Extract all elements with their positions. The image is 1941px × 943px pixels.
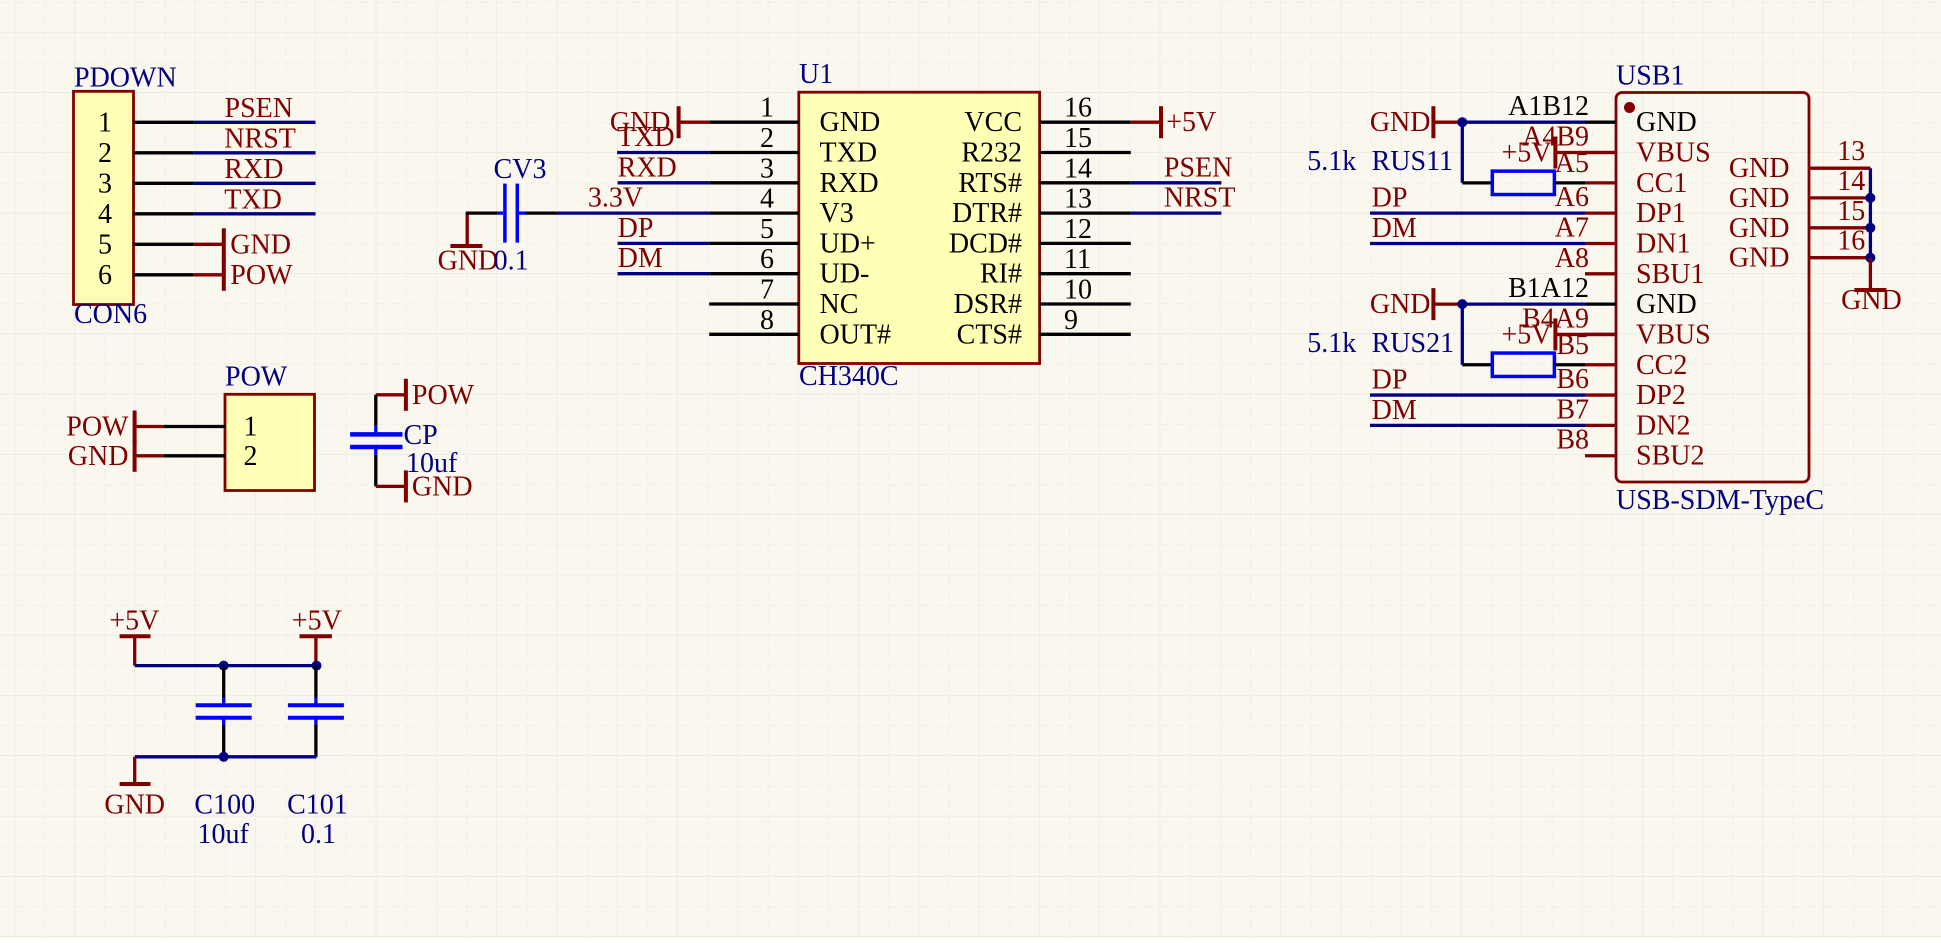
svg-text:GND: GND: [1729, 153, 1790, 184]
USB1 pin B1A12 (GND): [1508, 273, 1697, 320]
svg-text:CC1: CC1: [1636, 168, 1687, 199]
wire RXD stub at U1 pin 3: [618, 181, 710, 184]
svg-text:15: 15: [1837, 196, 1865, 227]
wire NRST net at U1 pin 13: [1131, 211, 1222, 214]
svg-text:4: 4: [760, 184, 774, 215]
USB1 pin A4B9 (VBUS): [1522, 122, 1711, 169]
power port GND below rail: [104, 757, 165, 821]
svg-text:B1A12: B1A12: [1508, 273, 1589, 304]
U1 pin 10 (DSR#): [954, 275, 1131, 321]
U1 pin 3 (RXD): [709, 153, 878, 199]
wire down to RUS11: [1461, 122, 1464, 183]
power port +5V above C100: [109, 605, 159, 665]
connector USB1 (USB-SDM-TypeC body): [1616, 61, 1824, 516]
svg-text:GND: GND: [68, 441, 129, 472]
wire RXD net: [194, 182, 316, 185]
svg-text:GND: GND: [1729, 183, 1790, 214]
svg-text:POW: POW: [225, 362, 288, 393]
U1 pin 1 (GND): [709, 93, 880, 139]
svg-text:B8: B8: [1556, 425, 1589, 456]
wire C100 bottom: [222, 725, 225, 757]
USB1 pin B8 (SBU2): [1556, 425, 1704, 472]
svg-text:NRST: NRST: [224, 123, 296, 154]
svg-text:USB-SDM-TypeC: USB-SDM-TypeC: [1616, 485, 1824, 516]
junction dot: [219, 752, 229, 762]
capacitor C101: [287, 698, 348, 850]
svg-text:CP: CP: [404, 420, 438, 451]
wire PSEN net at U1 pin 14: [1131, 181, 1222, 184]
svg-text:VCC: VCC: [964, 107, 1022, 138]
svg-text:2: 2: [244, 441, 258, 472]
wire CV3 right: [525, 211, 557, 214]
svg-text:11: 11: [1064, 244, 1091, 275]
svg-text:RXD: RXD: [820, 168, 879, 199]
svg-text:10: 10: [1064, 275, 1092, 306]
power port +5V at A4B9: [1501, 137, 1616, 169]
U1 pin 14 (RTS#): [958, 153, 1130, 199]
svg-text:GND: GND: [230, 229, 291, 260]
svg-text:DM: DM: [618, 243, 663, 274]
power port GND at U1 pin 1: [610, 106, 709, 138]
svg-text:GND: GND: [1636, 107, 1697, 138]
junction dot: [1457, 299, 1467, 309]
svg-text:GND: GND: [104, 789, 165, 820]
USB1 pin A8 (SBU1): [1555, 243, 1705, 290]
svg-text:UD-: UD-: [820, 259, 870, 290]
U1 pin 8 (OUT#): [709, 305, 891, 351]
wire RUS11 left: [1462, 181, 1492, 184]
U1 pin 12 (DCD#): [949, 214, 1131, 260]
USB1 pin 15 (GND shell): [1729, 196, 1871, 244]
U1 pin 7 (NC): [709, 275, 858, 321]
svg-text:GND: GND: [820, 107, 881, 138]
svg-text:14: 14: [1064, 153, 1092, 184]
capacitor C100: [194, 698, 255, 850]
power port GND at CON6 pin 5: [194, 228, 291, 260]
wire C101 bottom: [314, 725, 317, 757]
svg-text:NC: NC: [820, 289, 859, 320]
svg-text:14: 14: [1837, 166, 1865, 197]
capacitor CV3: [494, 154, 547, 277]
svg-text:TXD: TXD: [617, 122, 675, 153]
svg-text:9: 9: [1064, 305, 1078, 336]
svg-text:1: 1: [244, 412, 258, 443]
svg-text:U1: U1: [799, 59, 833, 90]
U1 pin 2 (TXD): [709, 123, 877, 169]
svg-text:5: 5: [760, 214, 774, 245]
wire CV3 left: [466, 211, 497, 214]
svg-text:UD+: UD+: [820, 228, 876, 259]
svg-text:2: 2: [760, 123, 774, 154]
U1 pin 4 (V3): [709, 184, 854, 230]
svg-text:3: 3: [760, 153, 774, 184]
U1 pin 11 (RI#): [980, 244, 1131, 290]
U1 pin 13 (DTR#): [952, 184, 1131, 230]
power port POW at CON6 pin 6: [194, 259, 293, 291]
wire CP bottom: [374, 455, 377, 487]
svg-text:5.1k: 5.1k: [1307, 146, 1356, 177]
svg-text:12: 12: [1064, 214, 1092, 245]
svg-text:A6: A6: [1555, 182, 1589, 213]
svg-text:A7: A7: [1555, 212, 1589, 243]
USB1 pin A5 (CC1): [1555, 148, 1688, 199]
svg-text:DTR#: DTR#: [952, 198, 1022, 229]
svg-text:TXD: TXD: [224, 184, 282, 215]
wire DP net to B6: [1370, 393, 1585, 396]
U1 pin 5 (UD+): [709, 214, 876, 260]
svg-text:RI#: RI#: [980, 259, 1022, 290]
svg-text:DP2: DP2: [1636, 380, 1686, 411]
junction dot: [1457, 117, 1467, 127]
wire GND rail: [135, 755, 317, 758]
svg-text:0.1: 0.1: [494, 246, 529, 277]
USB1 pin A7 (DN1): [1555, 212, 1691, 259]
USB1 pin A1B12 (GND): [1508, 91, 1697, 138]
resistor RUS21: [1307, 328, 1554, 376]
wire RUS11 right to A5: [1554, 181, 1585, 184]
svg-text:+5V: +5V: [1501, 319, 1551, 350]
svg-text:CV3: CV3: [494, 154, 547, 185]
svg-text:+5V: +5V: [1166, 107, 1216, 138]
svg-text:B6: B6: [1556, 364, 1589, 395]
svg-text:GND: GND: [438, 246, 499, 277]
U1 pin 9 (CTS#): [957, 305, 1131, 351]
svg-text:1: 1: [760, 93, 774, 124]
svg-text:16: 16: [1837, 226, 1865, 257]
svg-text:SBU2: SBU2: [1636, 441, 1704, 472]
svg-text:0.1: 0.1: [301, 819, 336, 850]
USB1 pin B4A9 (VBUS): [1522, 303, 1711, 350]
power port GND left of USB1 (lower): [1370, 288, 1462, 320]
svg-text:DN1: DN1: [1636, 228, 1690, 259]
USB1 pin 16 (GND shell): [1729, 226, 1871, 274]
USB1 pin 13 (GND shell): [1729, 136, 1871, 184]
svg-text:PDOWN: PDOWN: [74, 63, 177, 94]
U1 pin 16 (VCC): [964, 93, 1130, 139]
svg-text:GND: GND: [1841, 285, 1902, 316]
svg-text:3.3V: 3.3V: [588, 183, 643, 214]
USB1 pin 14 (GND shell): [1729, 166, 1871, 214]
svg-text:POW: POW: [230, 260, 293, 291]
svg-text:4: 4: [98, 199, 112, 230]
wire GND to A1B12: [1462, 121, 1585, 124]
svg-text:+5V: +5V: [109, 605, 159, 636]
junction dot: [312, 661, 322, 671]
wire 3.3V net: [557, 211, 710, 214]
svg-text:PSEN: PSEN: [225, 93, 293, 124]
svg-text:VBUS: VBUS: [1636, 319, 1711, 350]
wire DM net to A7: [1370, 242, 1585, 245]
svg-text:5: 5: [98, 229, 112, 260]
svg-text:RXD: RXD: [618, 152, 677, 183]
svg-text:DP1: DP1: [1636, 198, 1686, 229]
USB1 pin A6 (DP1): [1555, 182, 1686, 229]
USB1 pin B5 (CC2): [1556, 330, 1687, 381]
wire DM stub at U1 pin 6: [618, 272, 710, 275]
power port GND at POW pin 2: [68, 440, 164, 472]
svg-text:GND: GND: [1729, 243, 1790, 274]
svg-text:POW: POW: [412, 380, 475, 411]
svg-text:USB1: USB1: [1616, 61, 1684, 92]
svg-text:C101: C101: [287, 789, 348, 820]
power port POW at POW pin 1: [66, 411, 163, 443]
svg-text:GND: GND: [412, 471, 473, 502]
power port GND left of USB1 (upper): [1370, 106, 1462, 138]
capacitor CP: [350, 420, 458, 479]
power port GND below CP: [376, 470, 473, 502]
wire C101 top: [314, 666, 317, 698]
svg-text:TXD: TXD: [820, 138, 878, 169]
svg-text:RXD: RXD: [224, 154, 283, 185]
resistor RUS11: [1307, 146, 1554, 194]
svg-text:7: 7: [760, 275, 774, 306]
power port +5V above C101: [292, 605, 342, 665]
wire PSEN net: [194, 121, 316, 124]
junction dot: [1865, 253, 1875, 263]
svg-text:POW: POW: [66, 412, 129, 443]
wire RUS21 right to B5: [1554, 363, 1585, 366]
svg-text:GND: GND: [1370, 107, 1431, 138]
svg-text:DM: DM: [1372, 213, 1417, 244]
wire shell GND bus: [1869, 168, 1872, 258]
svg-text:A1B12: A1B12: [1508, 91, 1589, 122]
svg-text:GND: GND: [1370, 289, 1431, 320]
wire +5V rail: [135, 664, 317, 667]
svg-text:RUS21: RUS21: [1372, 328, 1454, 359]
svg-text:+5V: +5V: [292, 605, 342, 636]
svg-text:1: 1: [98, 107, 112, 138]
svg-text:CTS#: CTS#: [957, 319, 1022, 350]
power port GND at CV3: [438, 213, 499, 276]
wire TXD net: [194, 212, 316, 215]
wire DP net to A6: [1370, 212, 1585, 215]
svg-text:C100: C100: [194, 789, 255, 820]
svg-text:GND: GND: [1636, 289, 1697, 320]
U1 pin 6 (UD-): [709, 244, 869, 290]
junction dot: [219, 661, 229, 671]
wire DP stub at U1 pin 5: [618, 242, 710, 245]
svg-text:DCD#: DCD#: [949, 228, 1022, 259]
op-amp U1 (CH340C IC body): [799, 59, 1040, 392]
U1 pin 15 (R232): [961, 123, 1130, 169]
svg-text:10uf: 10uf: [198, 819, 250, 850]
svg-text:15: 15: [1064, 123, 1092, 154]
power port +5V at B4A9: [1501, 318, 1616, 350]
wire GND to B1A12: [1462, 302, 1585, 305]
junction dot: [1865, 193, 1875, 203]
svg-text:VBUS: VBUS: [1636, 138, 1711, 169]
USB1 pin 1 marker dot: [1624, 102, 1635, 113]
svg-text:R232: R232: [961, 138, 1022, 169]
svg-text:3: 3: [98, 168, 112, 199]
connector CON6 (PDOWN header): [74, 63, 194, 331]
svg-text:+5V: +5V: [1501, 138, 1551, 169]
junction dot: [1865, 223, 1875, 233]
wire RUS21 left: [1462, 363, 1492, 366]
svg-text:6: 6: [98, 260, 112, 291]
svg-text:CON6: CON6: [74, 299, 147, 330]
svg-text:13: 13: [1837, 136, 1865, 167]
USB1 pin B7 (DN2): [1556, 394, 1690, 441]
svg-text:NRST: NRST: [1164, 183, 1236, 214]
svg-text:PSEN: PSEN: [1164, 152, 1232, 183]
svg-text:DSR#: DSR#: [954, 289, 1022, 320]
svg-text:6: 6: [760, 244, 774, 275]
svg-text:CC2: CC2: [1636, 350, 1687, 381]
svg-text:GND: GND: [1729, 213, 1790, 244]
svg-text:16: 16: [1064, 93, 1092, 124]
wire down to RUS21: [1461, 304, 1464, 365]
USB1 pin B6 (DP2): [1556, 364, 1685, 411]
svg-text:B7: B7: [1556, 394, 1589, 425]
connector POW (2-pin header): [164, 362, 315, 491]
svg-text:DP: DP: [1372, 183, 1408, 214]
svg-text:13: 13: [1064, 184, 1092, 215]
svg-text:RTS#: RTS#: [958, 168, 1022, 199]
svg-text:CH340C: CH340C: [799, 361, 899, 392]
svg-text:8: 8: [760, 305, 774, 336]
svg-text:DP: DP: [1372, 365, 1408, 396]
power port POW above CP: [376, 379, 475, 411]
wire DM net to B7: [1370, 424, 1585, 427]
svg-text:DM: DM: [1372, 395, 1417, 426]
svg-text:SBU1: SBU1: [1636, 259, 1704, 290]
power port GND below USB1 shell pins: [1841, 258, 1902, 317]
svg-text:A8: A8: [1555, 243, 1589, 274]
svg-text:2: 2: [98, 138, 112, 169]
wire TXD stub at U1 pin 2: [617, 151, 709, 154]
svg-text:V3: V3: [820, 198, 854, 229]
svg-text:5.1k: 5.1k: [1307, 328, 1356, 359]
wire C100 top: [222, 666, 225, 698]
wire NRST net: [194, 151, 316, 154]
wire CP top: [374, 395, 377, 426]
svg-text:OUT#: OUT#: [820, 319, 892, 350]
svg-text:DP: DP: [618, 213, 654, 244]
svg-text:DN2: DN2: [1636, 410, 1690, 441]
svg-text:RUS11: RUS11: [1372, 146, 1453, 177]
power port +5V at U1 pin 16: [1131, 106, 1216, 138]
